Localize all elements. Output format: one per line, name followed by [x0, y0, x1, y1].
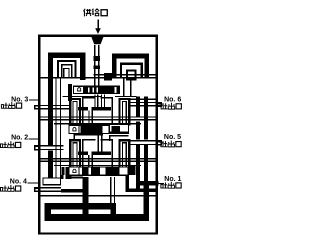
bottom center drop pair — [110, 177, 115, 204]
mid A gallery pair — [40, 116, 155, 120]
right main vertical channel 2 — [144, 97, 148, 221]
mid A center left U — [83, 98, 96, 126]
label discharge right 2 — [161, 141, 181, 147]
piston row 2 bore — [69, 125, 128, 133]
port No.5 stub — [157, 140, 162, 145]
piston row 3 right plug — [128, 165, 136, 175]
bore3 to V2 elbow — [70, 177, 83, 179]
upper gallery line short — [94, 74, 156, 75]
mid B lower leg pair — [88, 155, 93, 167]
mid B right inner loop — [122, 143, 126, 167]
mid B gallery pair — [40, 158, 155, 162]
mid A right outer loop — [119, 99, 129, 125]
port No.4 stub — [34, 187, 40, 192]
piston row 2 sub channel left — [74, 134, 104, 141]
port No.1 stub — [157, 181, 159, 186]
svg-text:No. 4: No. 4 — [10, 179, 27, 186]
bottom plate joint line — [40, 195, 155, 196]
label No.6 leader — [157, 103, 164, 104]
port No.3 stub — [34, 105, 40, 110]
mid A left outer loop — [70, 99, 80, 125]
port No.3 channel — [40, 105, 70, 110]
piston row 1 right cap — [117, 86, 120, 94]
supply channel junction blobs — [93, 56, 100, 69]
upper-left channel U1 thick — [48, 53, 85, 80]
mid B pre-bore line — [54, 165, 141, 166]
left main vertical channel upper segment — [48, 53, 53, 146]
label No.3 leader — [29, 100, 40, 106]
label No.2 leader — [29, 138, 41, 145]
lower right elbow channel — [125, 188, 155, 192]
upper-left channel U2 — [58, 61, 76, 78]
upper-right inner chamber — [127, 70, 136, 79]
svg-text:No. 1: No. 1 — [164, 176, 181, 183]
mid B center right U — [100, 140, 112, 167]
port No.6 stub — [157, 102, 162, 107]
piston row 1 tail lines — [123, 78, 131, 96]
mid B center left U — [83, 140, 96, 167]
piston row 2 check glyph — [73, 128, 76, 131]
piston row 1 under line left — [63, 96, 102, 97]
piston row 3 bore — [69, 167, 128, 175]
piston row 2 right assembly — [109, 124, 128, 132]
port No.1 channel thick — [136, 181, 155, 186]
piston row 1 check box — [74, 86, 84, 93]
bottom channel V2 — [82, 177, 88, 221]
mid A right inner loop — [122, 101, 126, 125]
upper-right channel U1 thick — [112, 53, 149, 78]
piston row 1 check glyph — [78, 88, 81, 91]
supply inlet funnel — [91, 37, 103, 44]
label No.5 leader — [157, 142, 164, 143]
piston row 1 left plug — [68, 84, 72, 101]
bottom channel lower bar — [45, 186, 150, 221]
label discharge right 3 — [161, 182, 181, 188]
mid A right loop top extension — [129, 99, 155, 100]
upper-left channel U3 — [62, 65, 72, 79]
No.4 thick connector — [61, 189, 83, 193]
label supply port 供给口 — [83, 9, 107, 17]
supply channel walls — [94, 45, 99, 86]
piston row 3 check box — [69, 167, 79, 175]
right main vertical channel 1 — [136, 97, 140, 193]
supply arrow — [95, 20, 101, 35]
mid B left inner loop — [73, 143, 77, 167]
upper gallery line full — [40, 77, 155, 79]
left thin vertical line 1 — [55, 78, 56, 177]
port No.4 channel — [40, 187, 61, 192]
svg-text:No. 6: No. 6 — [164, 97, 181, 104]
left main vertical channel lower segment — [48, 151, 53, 178]
upper-left inner chamber — [64, 68, 69, 78]
mid A pre-bore line — [54, 123, 141, 124]
label discharge left 3 — [0, 185, 20, 191]
mid B right outer loop — [119, 140, 129, 167]
mid B left outer loop — [70, 140, 80, 167]
piston row 2 spool — [81, 126, 103, 133]
piston row 2 check box — [69, 125, 79, 133]
piston row 2 sub channel right — [109, 135, 128, 141]
mid B supply drop lines — [98, 135, 103, 152]
left thin vertical line 2 — [60, 78, 61, 177]
bottom channel V1 — [65, 175, 71, 179]
port No.2 stub — [34, 145, 40, 150]
svg-text:No. 2: No. 2 — [11, 135, 28, 142]
port No.5 channel — [130, 140, 156, 145]
piston row 3 spool — [82, 168, 120, 175]
piston row 3 check glyph — [73, 169, 76, 172]
svg-text:No. 5: No. 5 — [164, 134, 181, 141]
mid B center band — [78, 152, 111, 155]
piston row 3 left plug — [62, 167, 70, 175]
svg-text:No. 3: No. 3 — [11, 96, 28, 103]
label discharge left 1 — [1, 102, 21, 108]
piston row 1 bore — [74, 86, 120, 93]
elbow block right of supply channel — [104, 73, 112, 80]
mid A left inner loop — [73, 101, 77, 125]
piston row 1 spool — [84, 87, 115, 93]
label No.1 leader — [157, 183, 164, 184]
mid A supply drop lines — [94, 95, 105, 108]
label No.4 leader — [27, 183, 40, 189]
mid A lower leg pair — [88, 110, 93, 125]
label discharge right 1 — [161, 103, 181, 109]
piston row 3 tail — [125, 175, 129, 192]
port No.6 channel — [130, 102, 156, 107]
bottom left drop pair — [61, 175, 63, 179]
upper-right channel U2 — [121, 64, 142, 78]
label discharge left 2 — [0, 141, 20, 147]
piston row 1 under line right — [115, 96, 136, 97]
bottom channel M bar — [45, 203, 117, 221]
outer housing border — [39, 36, 157, 234]
port No.4 chamber box — [43, 178, 60, 185]
port No.2 channel — [40, 145, 63, 150]
mid A center right U — [100, 98, 112, 126]
mid A center band — [78, 107, 111, 110]
